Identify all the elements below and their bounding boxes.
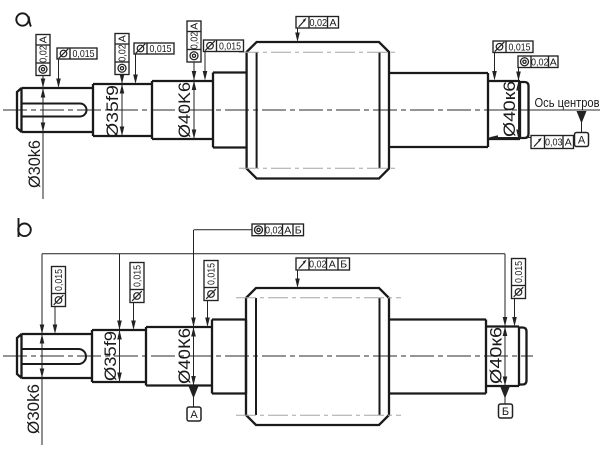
frame A10 face runout 0,03 A — [531, 136, 574, 149]
gear A pitch line bottom — [239, 167, 398, 169]
svg-text:Ø40к6: Ø40к6 — [488, 327, 506, 384]
gear A-S5 outline — [247, 42, 389, 179]
svg-text:А: А — [284, 224, 291, 236]
svg-text:А: А — [190, 409, 198, 421]
centerline A — [3, 109, 536, 111]
svg-text:0,015: 0,015 — [509, 41, 531, 53]
section A-S1 Ø30k6 — [17, 84, 93, 136]
dimension B Ø40K6 + datum A — [193, 230, 195, 386]
frame B3 cylindricity 0,015 on Ø40K6 — [204, 261, 218, 301]
gear B-S5 chamfer edges — [256, 298, 380, 415]
svg-text:Ø40K6: Ø40K6 — [176, 82, 194, 138]
gear A-S5 chamfer edges — [257, 52, 380, 168]
svg-text:0,02: 0,02 — [309, 259, 327, 271]
svg-text:Ось центров: Ось центров — [535, 95, 600, 110]
svg-text:Ø35f9: Ø35f9 — [102, 331, 120, 381]
dimension A Ø40K6 — [193, 62, 195, 139]
svg-text:Ø40К6: Ø40К6 — [176, 328, 194, 384]
frame A7 radial runout 0,02 A on gear — [296, 17, 339, 29]
frame B5 concentricity 0,02 А Б — [252, 224, 304, 236]
svg-text:0,015: 0,015 — [513, 261, 525, 283]
svg-text:A: A — [550, 56, 557, 68]
gear B pitch line bottom — [236, 414, 401, 416]
svg-text:0,02: 0,02 — [38, 45, 50, 63]
svg-text:Ø30k6: Ø30k6 — [25, 384, 43, 434]
svg-text:Б: Б — [502, 406, 509, 418]
frame B6 radial runout 0,02 А Б on gear — [296, 258, 350, 271]
keyway A — [22, 104, 87, 117]
section B-S6 — [389, 320, 486, 394]
section B-S2 Ø35f9 — [92, 327, 146, 386]
svg-text:0,015: 0,015 — [150, 43, 172, 55]
svg-text:0,02: 0,02 — [309, 17, 327, 29]
section A-S4 — [213, 73, 247, 148]
svg-text:A: A — [38, 36, 50, 43]
label b — [18, 218, 31, 237]
svg-text:Б: Б — [295, 224, 302, 236]
svg-text:Ø40к6: Ø40к6 — [501, 81, 519, 137]
centerline A right solid — [536, 109, 600, 111]
section B-S7 Ø40к6 journal — [486, 327, 519, 387]
svg-text:A: A — [565, 137, 572, 149]
shared leader line B — [42, 253, 505, 255]
dimension B Ø30k6 — [41, 254, 43, 445]
svg-text:0,015: 0,015 — [53, 269, 65, 291]
frame B2 cylindricity 0,015 on Ø35f9 — [130, 263, 144, 303]
svg-text:0,015: 0,015 — [132, 265, 144, 287]
svg-text:0,02: 0,02 — [265, 224, 283, 236]
dimension A Ø40к6 right — [518, 68, 520, 140]
frame A6 cylindricity 0,015 on Ø40K6 — [204, 40, 244, 52]
section A-S8 end piece — [520, 82, 529, 138]
dimension B Ø35f9 — [119, 254, 121, 382]
centerline B — [3, 355, 533, 357]
svg-text:0,015: 0,015 — [73, 48, 95, 60]
frame A1 concentricity 0,02 A over Ø30k6 — [36, 35, 50, 76]
section A-S3 Ø40K6 — [152, 73, 213, 148]
svg-text:A: A — [329, 17, 336, 29]
frame B4 cylindricity 0,015 on right journal — [512, 259, 526, 299]
frame A3 concentricity 0,02 A over Ø35f9 — [115, 34, 129, 75]
dimension A Ø30k6 — [42, 76, 44, 200]
svg-text:Ø30k6: Ø30k6 — [26, 140, 44, 188]
svg-text:0,02: 0,02 — [531, 56, 549, 68]
svg-text:0,03: 0,03 — [545, 137, 563, 149]
frame A4 cylindricity 0,015 on Ø35f9 — [134, 43, 174, 55]
svg-text:А: А — [329, 259, 336, 271]
section A-S2 Ø35f9 — [93, 81, 152, 139]
gear A pitch line top — [239, 51, 398, 53]
svg-text:A: A — [117, 35, 129, 42]
frame A2 cylindricity 0,015 on Ø30k6 — [57, 48, 97, 60]
section B-S4 — [212, 320, 246, 394]
svg-text:0,02: 0,02 — [189, 32, 201, 50]
section A-S7 Ø40к6 journal — [488, 81, 520, 139]
section B-S8 end piece — [519, 328, 527, 385]
svg-text:0,015: 0,015 — [219, 40, 241, 52]
gear B-S5 outline — [246, 288, 389, 425]
frame B1 cylindricity 0,015 on Ø30k6 — [52, 267, 66, 307]
label a — [16, 13, 31, 26]
frame A9 concentricity 0,02 A on right journal — [518, 56, 558, 68]
frame A8 cylindricity 0,015 on right journal — [493, 41, 533, 53]
dimension B Ø40к6 + datum Б — [504, 254, 506, 386]
svg-text:A: A — [189, 23, 201, 30]
svg-text:Б: Б — [340, 259, 347, 271]
svg-text:А: А — [578, 135, 586, 147]
svg-text:Ø35f9: Ø35f9 — [104, 85, 122, 138]
section B-S1 Ø30k6 — [17, 330, 92, 382]
frame A5 concentricity 0,02 A over Ø40K6 — [187, 21, 201, 62]
datum A on centerline — [577, 111, 587, 124]
dimension A Ø35f9 — [121, 75, 123, 137]
section A-S6 — [389, 73, 488, 147]
section B-S3 Ø40K6 — [146, 320, 212, 394]
svg-text:0,015: 0,015 — [206, 263, 218, 285]
keyway B — [22, 349, 86, 364]
gear B pitch line top — [236, 297, 401, 299]
svg-text:0,02: 0,02 — [117, 44, 129, 62]
